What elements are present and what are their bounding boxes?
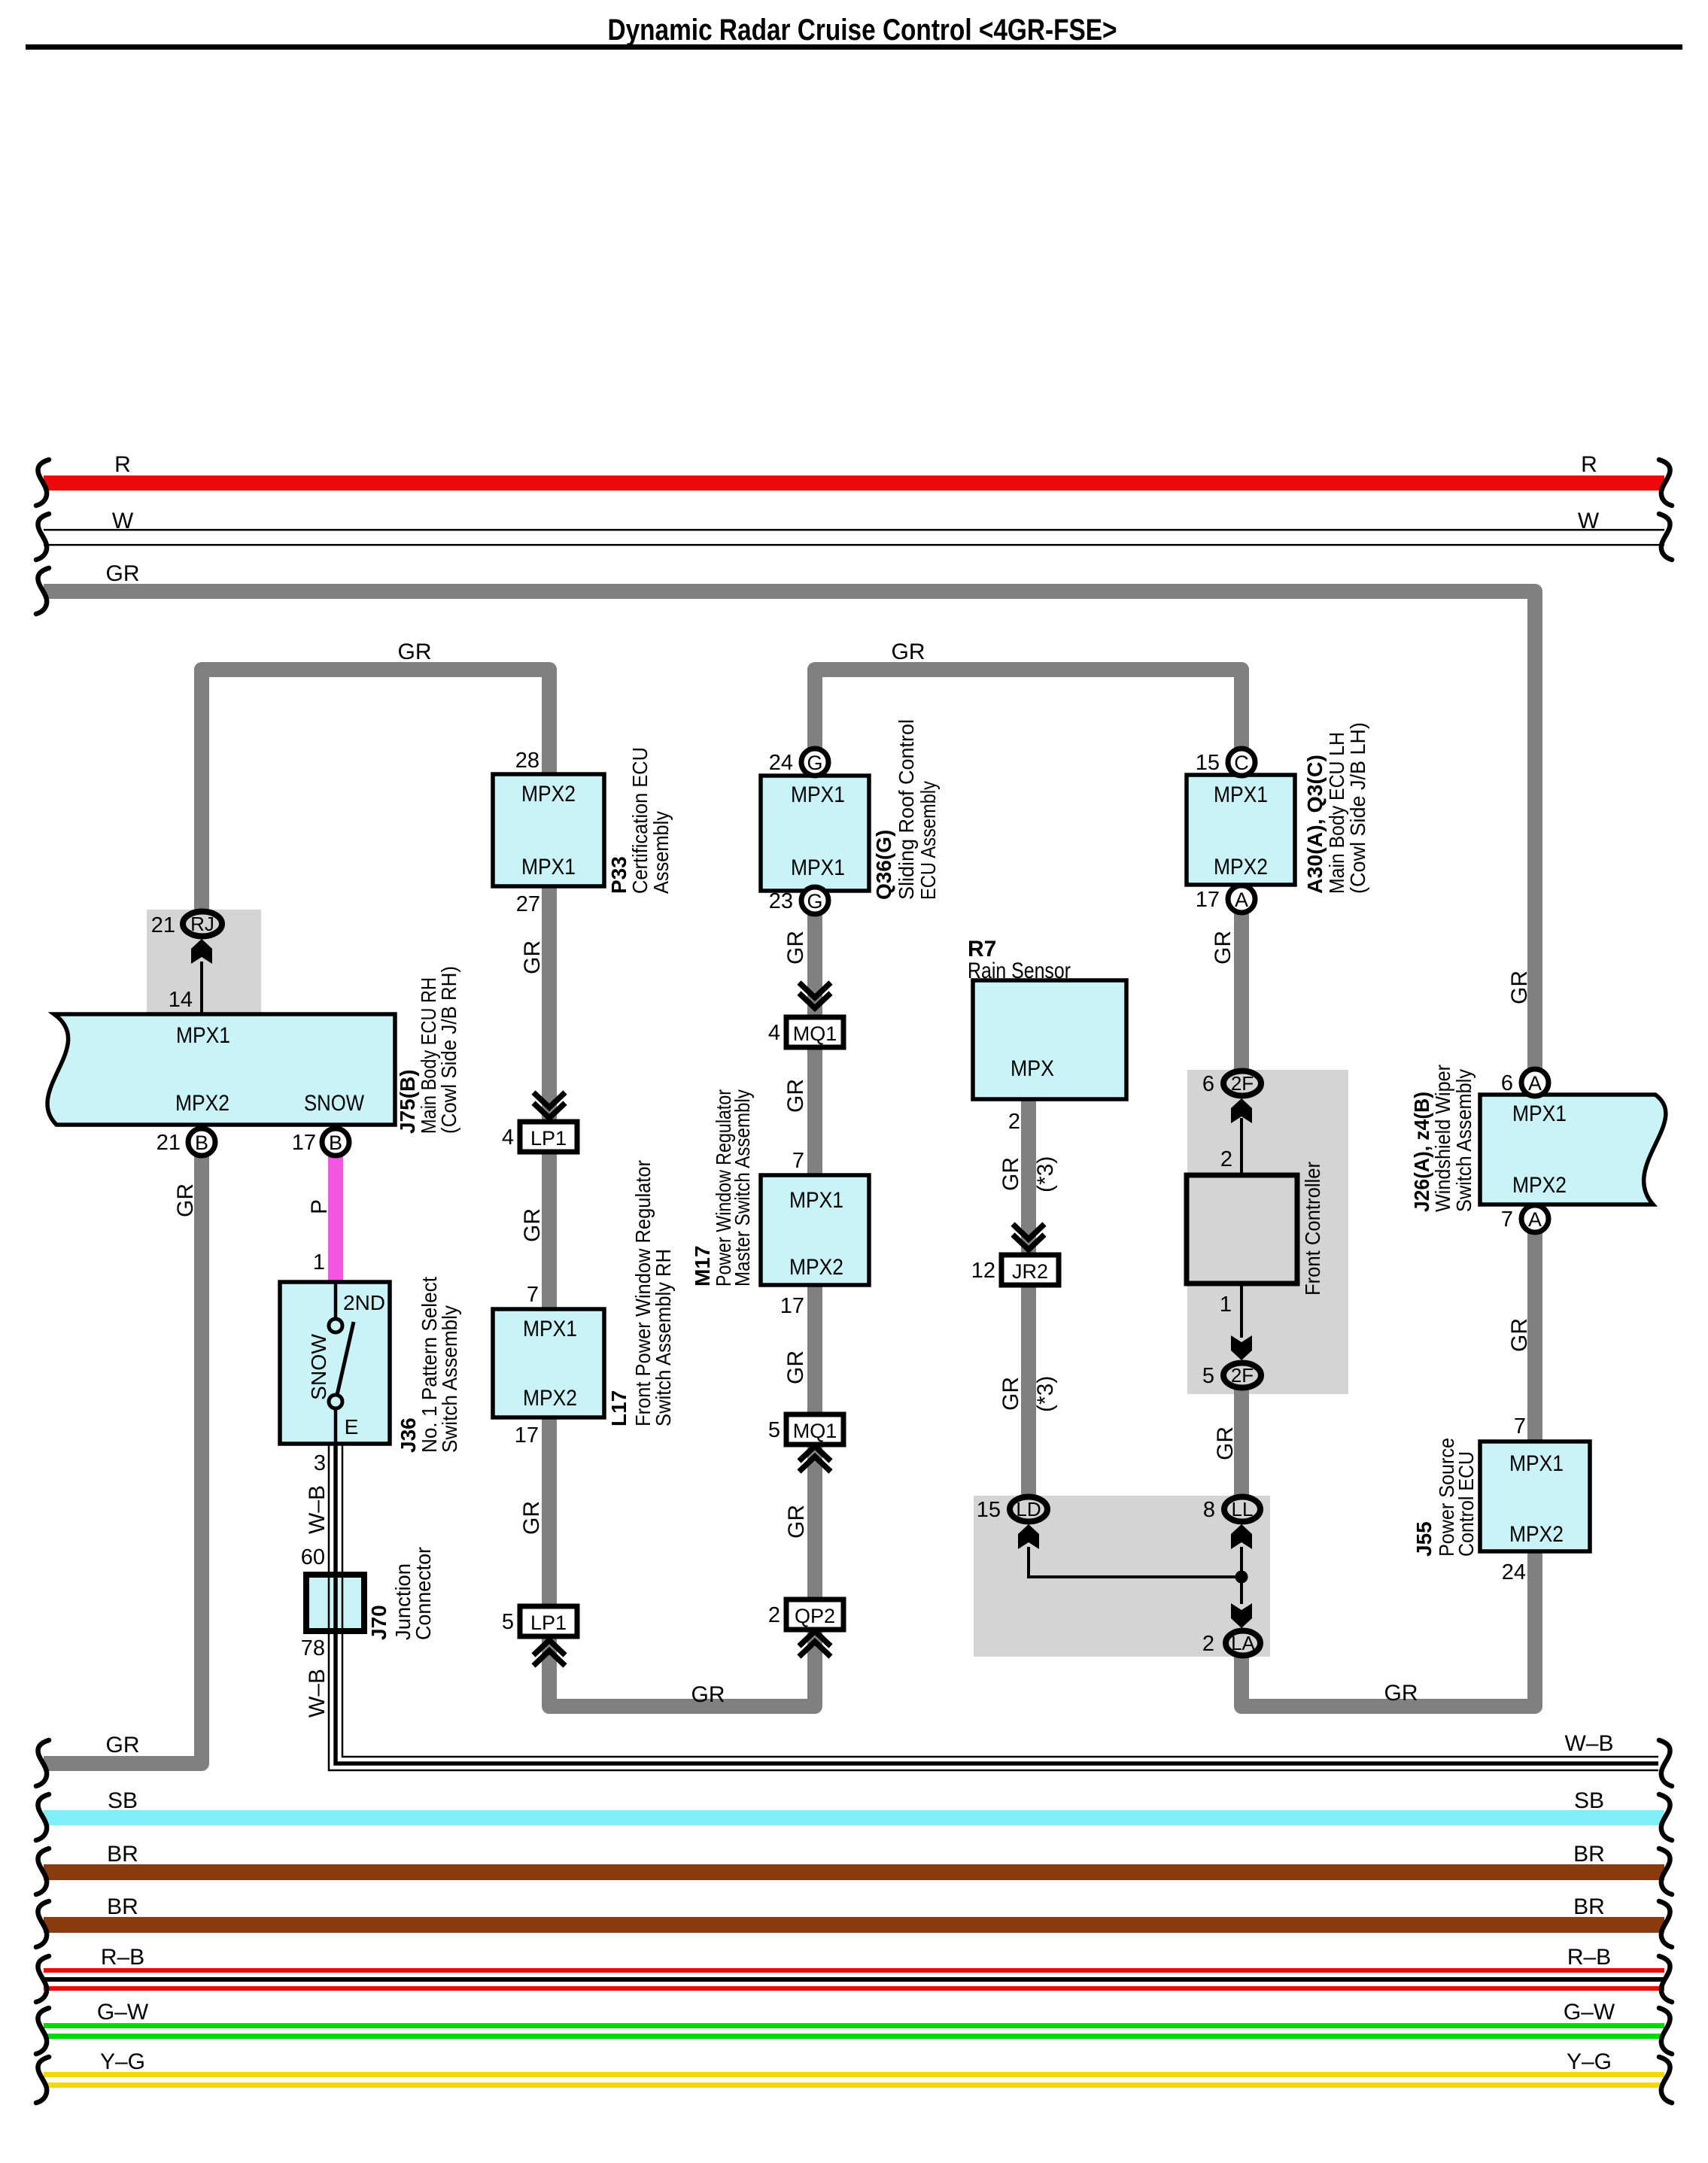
svg-text:W–B: W–B (305, 1669, 330, 1718)
svg-text:SNOW: SNOW (307, 1333, 330, 1400)
svg-text:Assembly: Assembly (649, 811, 673, 894)
svg-text:(*3): (*3) (1033, 1156, 1058, 1192)
svg-text:17: 17 (780, 1294, 804, 1318)
svg-text:MPX1: MPX1 (1512, 1101, 1567, 1126)
svg-text:Switch Assembly: Switch Assembly (438, 1305, 461, 1453)
svg-text:G: G (807, 752, 822, 774)
svg-text:ECU Assembly: ECU Assembly (916, 781, 940, 900)
svg-text:27: 27 (516, 892, 540, 916)
svg-text:W: W (112, 509, 134, 533)
shade behind RJ connector (147, 910, 261, 1014)
svg-text:6: 6 (1202, 1072, 1214, 1096)
svg-text:MPX2: MPX2 (523, 1386, 577, 1411)
svg-text:GR: GR (520, 1208, 545, 1242)
title underline (26, 44, 1682, 50)
svg-text:MPX2: MPX2 (789, 1255, 843, 1280)
connector oval LD pin15 with arrow (977, 1497, 1047, 1550)
svg-text:J36: J36 (397, 1417, 420, 1453)
svg-text:17: 17 (292, 1131, 316, 1155)
svg-text:LP1: LP1 (530, 1127, 567, 1150)
Front Controller box (1187, 1162, 1324, 1296)
bus wire W (white) with continuation braces (36, 509, 1672, 560)
svg-text:MPX2: MPX2 (1512, 1173, 1567, 1198)
wire GR: J75 pin21(B) down and across to left edge, with brace (36, 1142, 202, 1786)
svg-text:MPX2: MPX2 (1214, 855, 1268, 879)
svg-text:Windshield Wiper: Windshield Wiper (1431, 1065, 1454, 1212)
svg-text:GR: GR (1507, 1318, 1532, 1352)
switch box J26(A), z4(B) Windshield Wiper Switch Assembly, wavy right edge (1410, 1065, 1666, 1212)
svg-text:5: 5 (502, 1610, 514, 1634)
svg-text:GR: GR (783, 931, 808, 965)
chevron out of LP1 pin5 (533, 1640, 565, 1655)
svg-text:W–B: W–B (305, 1485, 330, 1534)
svg-text:MPX1: MPX1 (1509, 1451, 1564, 1476)
svg-text:J70: J70 (367, 1605, 391, 1640)
wire: LD arrow down and across to junction (1029, 1547, 1241, 1577)
svg-text:1: 1 (313, 1250, 325, 1274)
svg-text:2ND: 2ND (343, 1291, 385, 1314)
wire GR branch: RJ column to P33 column (202, 639, 549, 913)
svg-text:BR: BR (107, 1894, 138, 1919)
svg-text:Switch Assembly: Switch Assembly (1452, 1069, 1476, 1212)
junction connector box J70 (306, 1547, 435, 1640)
connector box LP1 pin5 (502, 1606, 577, 1636)
connector circle B pin21 (J75) (157, 1129, 215, 1156)
svg-text:R: R (114, 452, 131, 477)
svg-text:Rain Sensor: Rain Sensor (968, 958, 1071, 983)
svg-text:Sliding Roof Control: Sliding Roof Control (895, 719, 918, 900)
chevron into JR2 pin12 (1013, 1224, 1044, 1239)
chevron into LP1 pin4 (533, 1092, 565, 1107)
svg-text:14: 14 (169, 988, 193, 1012)
svg-text:G: G (807, 890, 822, 913)
svg-text:G–W: G–W (97, 2000, 149, 2025)
svg-text:L17: L17 (607, 1390, 631, 1426)
svg-text:G–W: G–W (1564, 2000, 1615, 2025)
svg-text:E: E (345, 1415, 359, 1438)
svg-text:2: 2 (1202, 1632, 1214, 1656)
svg-text:MQ1: MQ1 (793, 1022, 837, 1045)
connector box QP2 pin2 (768, 1599, 843, 1630)
svg-text:12: 12 (971, 1259, 995, 1283)
svg-text:5: 5 (768, 1418, 780, 1442)
wire GR: L17 pin17 down, across bottom, up to M17 pin17 (549, 1285, 815, 1707)
svg-text:28: 28 (515, 749, 539, 773)
chevron into MQ1 pin4 (799, 983, 831, 998)
svg-text:(Cowl Side J/B LH): (Cowl Side J/B LH) (1346, 722, 1369, 894)
svg-text:GR: GR (519, 1501, 544, 1535)
svg-text:(Cowl Side J/B RH): (Cowl Side J/B RH) (437, 966, 460, 1134)
sensor box R7 Rain Sensor (968, 937, 1126, 1099)
svg-text:MPX1: MPX1 (789, 1188, 843, 1213)
svg-text:GR: GR (892, 639, 925, 664)
svg-text:MPX2: MPX2 (521, 782, 576, 807)
svg-text:W–B: W–B (1564, 1731, 1613, 1756)
svg-text:15: 15 (977, 1498, 1001, 1522)
svg-text:BR: BR (1573, 1894, 1605, 1919)
ECU box P33 Certification ECU Assembly (493, 747, 673, 894)
wire W-B: J36 pin3 through J70 down and across to right edge, with brace (329, 1444, 1672, 1786)
svg-text:GR: GR (520, 940, 545, 974)
svg-text:J55: J55 (1412, 1521, 1436, 1557)
ECU box J55 Power Source Control ECU (1412, 1438, 1590, 1557)
bus wire G-W (green/white/green) with braces (36, 2000, 1672, 2054)
svg-text:21: 21 (157, 1131, 181, 1155)
svg-text:4: 4 (502, 1126, 514, 1150)
svg-text:A: A (1528, 1208, 1542, 1231)
svg-text:23: 23 (769, 889, 793, 913)
bus wire BR (lower) with braces (36, 1894, 1672, 1947)
wire GR: J26 pin7 down to J55 pin7 (1527, 1083, 1542, 1442)
svg-text:GR: GR (106, 1733, 140, 1757)
svg-text:7: 7 (1501, 1208, 1513, 1232)
svg-text:QP2: QP2 (795, 1605, 835, 1627)
svg-text:R: R (1581, 452, 1597, 477)
svg-text:BR: BR (107, 1842, 138, 1867)
svg-text:Y–G: Y–G (1567, 2049, 1612, 2074)
svg-text:GR: GR (998, 1157, 1023, 1191)
bus wire R (red) with continuation braces (36, 452, 1672, 506)
svg-text:GR: GR (1211, 931, 1235, 965)
svg-text:2F: 2F (1231, 1072, 1254, 1095)
bus wire Y-G (yellow/white/yellow) with braces (36, 2049, 1672, 2103)
wire P (pink): J75 pin17(B) down to J36 pin1 (328, 1142, 343, 1284)
svg-text:21: 21 (151, 913, 175, 937)
connector oval RJ pin21 with arrow (151, 912, 222, 965)
svg-text:7: 7 (792, 1149, 804, 1173)
svg-text:GR: GR (783, 1350, 808, 1384)
svg-text:LD: LD (1016, 1498, 1041, 1520)
svg-text:78: 78 (301, 1636, 325, 1660)
svg-text:7: 7 (1514, 1414, 1526, 1438)
connector circle A pin7 (J26) (1501, 1205, 1548, 1232)
svg-text:Control ECU: Control ECU (1454, 1451, 1478, 1557)
svg-text:Master Switch Assembly: Master Switch Assembly (731, 1089, 754, 1287)
junction dot (1235, 1571, 1248, 1584)
svg-text:SB: SB (1574, 1788, 1604, 1813)
svg-text:GR: GR (1213, 1426, 1238, 1460)
shade behind LD/LL/LA connectors (974, 1496, 1270, 1657)
bus wire BR (upper) with braces (36, 1842, 1672, 1894)
svg-text:LP1: LP1 (530, 1612, 567, 1634)
svg-text:C: C (1234, 752, 1249, 774)
svg-text:P: P (307, 1199, 332, 1214)
svg-text:2: 2 (1220, 1147, 1232, 1171)
svg-text:3: 3 (314, 1451, 326, 1475)
bus wire R-B (red/black/red) with braces (36, 1945, 1672, 2002)
ECU box M17 Power Window Regulator Master Switch Assembly (691, 1089, 869, 1287)
ECU box Q36(G) Sliding Roof Control ECU Assembly (761, 719, 940, 900)
wire GR: 2F(5) down to LL connector (1234, 1388, 1249, 1497)
svg-text:Q36(G): Q36(G) (872, 830, 895, 900)
svg-text:Main Body ECU LH: Main Body ECU LH (1325, 732, 1348, 894)
svg-text:MPX2: MPX2 (1509, 1522, 1564, 1547)
svg-text:1: 1 (1220, 1293, 1232, 1317)
wire GR: Q36 pin23 down to M17 pin7 (807, 891, 822, 1175)
connector oval 2F pin5 with arrow (1202, 1335, 1261, 1388)
svg-text:B: B (329, 1132, 342, 1154)
svg-text:R–B: R–B (1567, 1945, 1611, 1970)
wire GR: A30 pin17 down to 2F connector (1234, 899, 1249, 1071)
svg-text:4: 4 (768, 1021, 780, 1045)
chevron out of QP2 pin2 (799, 1631, 831, 1646)
svg-text:RJ: RJ (190, 913, 214, 935)
svg-text:Front Controller: Front Controller (1301, 1162, 1324, 1296)
connector circle A pin17 (A30) (1196, 886, 1255, 913)
svg-text:Y–G: Y–G (100, 2049, 145, 2074)
svg-text:J26(A), z4(B): J26(A), z4(B) (1410, 1092, 1433, 1212)
wire: 2F(6) arrow down to Front Controller pin2 (1240, 1118, 1243, 1177)
svg-text:SNOW: SNOW (304, 1091, 365, 1116)
svg-text:8: 8 (1203, 1498, 1215, 1522)
connector circle B pin17 (J75 SNOW) (292, 1129, 349, 1156)
shade behind Front Controller (1187, 1070, 1348, 1394)
connector circle A pin6 (J26) (1501, 1069, 1548, 1096)
svg-text:5: 5 (1202, 1364, 1214, 1388)
svg-text:17: 17 (515, 1423, 539, 1448)
svg-text:J75(B): J75(B) (396, 1069, 419, 1134)
svg-text:17: 17 (1196, 888, 1220, 912)
svg-text:GR: GR (1507, 971, 1532, 1004)
ECU box A30(A), Q3(C) Main Body ECU LH (Cowl Side J/B LH) (1187, 722, 1369, 894)
svg-text:W: W (1578, 509, 1600, 533)
svg-text:B: B (195, 1132, 208, 1154)
wire GR: R7 pin2 down to LD connector (1021, 1099, 1036, 1497)
svg-text:GR: GR (398, 639, 432, 664)
svg-text:2F: 2F (1231, 1364, 1254, 1387)
svg-text:MPX1: MPX1 (791, 782, 845, 807)
svg-text:GR: GR (998, 1377, 1023, 1411)
svg-text:MPX1: MPX1 (1214, 782, 1268, 807)
svg-text:2: 2 (1008, 1110, 1020, 1134)
svg-text:24: 24 (769, 751, 793, 775)
chevron out of MQ1 pin5 (799, 1446, 831, 1461)
svg-text:A30(A), Q3(C): A30(A), Q3(C) (1303, 755, 1327, 894)
ECU box L17 Front Power Window Regulator Switch Assembly RH (493, 1160, 675, 1426)
connector box MQ1 pin5 (768, 1414, 843, 1445)
wire: J75 pin14 up to RJ arrow (200, 962, 203, 1016)
svg-text:24: 24 (1502, 1560, 1526, 1584)
wire GR: P33 pin27 down to L17 pin7 (542, 886, 557, 1309)
svg-text:M17: M17 (691, 1246, 714, 1287)
svg-text:Switch Assembly RH: Switch Assembly RH (652, 1249, 675, 1426)
svg-text:15: 15 (1196, 751, 1220, 775)
ECU box J75(B) Main Body ECU RH (Cowl Side J/B RH), wavy left edge (47, 966, 460, 1134)
wire GR: LA down, across bottom, up to J55 pin24 (1241, 1551, 1535, 1706)
connector box LP1 pin4 (502, 1122, 577, 1152)
wire GR branch: Q36 column to A30 column (815, 639, 1241, 764)
svg-text:GR: GR (691, 1682, 725, 1707)
svg-text:MPX1: MPX1 (521, 855, 576, 879)
svg-text:LL: LL (1232, 1498, 1254, 1520)
svg-text:MPX2: MPX2 (175, 1091, 229, 1116)
svg-text:BR: BR (1573, 1842, 1605, 1867)
svg-text:Dynamic Radar Cruise Control <: Dynamic Radar Cruise Control <4GR-FSE> (608, 14, 1117, 47)
svg-text:MPX1: MPX1 (523, 1317, 577, 1341)
connector box JR2 pin12 (971, 1255, 1059, 1285)
connector oval 2F pin6 with arrow (1202, 1071, 1261, 1124)
connector circle C pin15 (A30) (1196, 749, 1255, 776)
svg-text:GR: GR (1384, 1681, 1418, 1706)
wire: LL arrow down through junction to LA arrow (1240, 1547, 1243, 1604)
connector circle G pin24 (Q36) (769, 749, 828, 776)
svg-text:A: A (1235, 889, 1248, 911)
svg-text:SB: SB (108, 1788, 138, 1813)
svg-text:GR: GR (106, 561, 140, 586)
svg-text:60: 60 (301, 1545, 325, 1569)
wire: Front Controller pin1 down to 2F(5) arrow (1240, 1281, 1243, 1338)
svg-text:MPX1: MPX1 (791, 855, 845, 880)
svg-text:Certification ECU: Certification ECU (628, 747, 652, 894)
svg-text:R–B: R–B (101, 1945, 144, 1970)
svg-text:2: 2 (768, 1603, 780, 1627)
svg-text:(*3): (*3) (1033, 1376, 1058, 1412)
svg-text:LA: LA (1231, 1632, 1255, 1654)
svg-text:MPX: MPX (1011, 1056, 1054, 1081)
svg-text:GR: GR (173, 1183, 198, 1217)
svg-text:MQ1: MQ1 (793, 1420, 837, 1442)
svg-text:JR2: JR2 (1012, 1260, 1048, 1283)
bus wire SB with braces (36, 1788, 1672, 1840)
svg-text:P33: P33 (607, 856, 631, 894)
switch box J36 No. 1 Pattern Select Switch Assembly (SNOW 2ND/E switch) (280, 1277, 461, 1453)
svg-text:GR: GR (784, 1505, 809, 1539)
connector circle G pin23 (Q36) (769, 887, 828, 914)
connector oval LA pin2 with arrow (1202, 1603, 1260, 1656)
svg-text:GR: GR (783, 1079, 808, 1113)
bus wire GR (gray) turning down to J26, with continuation brace (36, 561, 1535, 1071)
svg-text:MPX1: MPX1 (176, 1023, 230, 1048)
connector oval LL pin8 with arrow (1203, 1497, 1260, 1550)
svg-text:A: A (1528, 1072, 1542, 1095)
svg-text:6: 6 (1501, 1071, 1513, 1095)
svg-text:Connector: Connector (412, 1547, 435, 1640)
svg-text:7: 7 (527, 1283, 539, 1307)
connector box MQ1 pin4 (768, 1017, 843, 1047)
